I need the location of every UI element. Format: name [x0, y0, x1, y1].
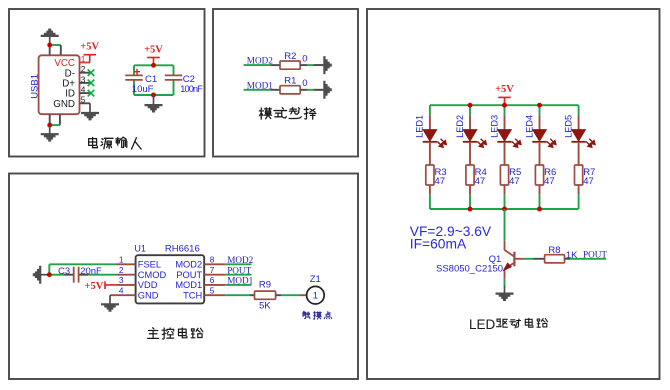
- svg-text:3: 3: [81, 74, 86, 84]
- wire: [49, 45, 51, 55]
- Z1 pin: [300, 294, 307, 296]
- wire: [578, 105, 580, 115]
- +5V flag (VDD): [84, 281, 115, 292]
- wire: [504, 105, 506, 115]
- svg-text:5: 5: [210, 285, 215, 295]
- wire: [134, 94, 174, 96]
- wire: [539, 105, 541, 115]
- svg-text:47: 47: [509, 176, 520, 187]
- resistor R9: [255, 291, 276, 299]
- resistor R2: [280, 61, 300, 69]
- wire: [110, 294, 116, 296]
- LED2 anode pin: [469, 115, 471, 130]
- svg-text:LED5: LED5: [563, 115, 573, 138]
- resistor R9 left pin: [250, 294, 255, 296]
- svg-text:POUT: POUT: [176, 270, 202, 280]
- svg-text:POUT: POUT: [583, 249, 607, 259]
- touch pad Z1 circle: [307, 286, 325, 304]
- wire: [133, 65, 135, 75]
- junction (LED rail top): [502, 103, 507, 108]
- wire: [314, 89, 324, 91]
- svg-text:1: 1: [119, 255, 124, 265]
- svg-text:47: 47: [475, 176, 486, 187]
- svg-text:8: 8: [210, 255, 215, 265]
- wire: [430, 104, 579, 106]
- USB1 pin 4 stub: [80, 92, 91, 94]
- svg-text:R2: R2: [284, 51, 296, 62]
- title: mode select (mo shi xuan ze): [259, 108, 271, 119]
- resistor R3: [426, 165, 434, 185]
- svg-text:VDD: VDD: [138, 280, 158, 290]
- svg-text:TCH: TCH: [183, 291, 202, 301]
- wire: [59, 114, 61, 125]
- wire: [504, 195, 506, 209]
- svg-text:1: 1: [313, 291, 318, 302]
- svg-text:LED2: LED2: [455, 115, 465, 138]
- resistor R2 left pin: [270, 64, 280, 66]
- U1 pin 7 stub: [204, 274, 225, 276]
- U1 pin 5 stub: [204, 294, 225, 296]
- U1 pin 8 stub: [204, 263, 225, 265]
- svg-text:0: 0: [302, 54, 307, 65]
- LED5 anode pin: [578, 115, 580, 130]
- wire: [570, 258, 606, 260]
- +5V flag (USB): [80, 42, 99, 63]
- capacitor C3 plates: [73, 267, 75, 283]
- +5V flag (capacitors): [144, 44, 163, 65]
- svg-text:LED1: LED1: [415, 115, 425, 138]
- svg-text:SS8050_C2150: SS8050_C2150: [436, 263, 503, 274]
- svg-text:47: 47: [583, 176, 594, 187]
- R4 bottom pin: [469, 185, 471, 195]
- svg-text:POUT: POUT: [227, 266, 251, 276]
- C1 polarity +: [134, 71, 140, 73]
- svg-text:GND: GND: [138, 291, 159, 301]
- LED D4 (LED4): [532, 130, 556, 148]
- resistor R8 right pin: [565, 258, 571, 260]
- wire: [307, 89, 314, 91]
- svg-text:47: 47: [435, 176, 446, 187]
- no-connect flag pin 4: [88, 90, 95, 97]
- svg-text:R1: R1: [284, 76, 296, 87]
- junction (LED rail bottom): [537, 207, 542, 212]
- USB1 pin 2 stub: [80, 72, 91, 74]
- resistor R9 right pin: [276, 294, 281, 296]
- transistor Q1: [504, 241, 525, 279]
- section box: mode select: [213, 9, 358, 157]
- IC U1 body: [136, 255, 205, 303]
- junction (LED rail top): [537, 103, 542, 108]
- svg-text:+5V: +5V: [80, 42, 99, 53]
- wire: [430, 208, 579, 210]
- svg-text:GND: GND: [53, 99, 75, 110]
- wire: [469, 195, 471, 209]
- ground (capacitors): [145, 95, 163, 113]
- wire: [429, 195, 431, 209]
- junction (USB shield top): [47, 43, 52, 48]
- wire: [469, 105, 471, 115]
- ground (R2): [315, 56, 332, 74]
- wire: [89, 274, 116, 276]
- svg-text:7: 7: [210, 265, 215, 275]
- junction (USB shield bottom): [47, 123, 52, 128]
- ground (top of USB1): [41, 29, 59, 46]
- no-connect flag pin 2: [88, 69, 95, 76]
- junction (LED rail bottom): [502, 207, 507, 212]
- ground (U1 GND): [101, 295, 119, 312]
- wire: [429, 105, 431, 115]
- wire: [539, 195, 541, 209]
- svg-text:MOD2: MOD2: [175, 260, 202, 270]
- junction (C3 / arrow): [47, 272, 52, 277]
- wire: [173, 80, 175, 95]
- capacitor C1 plates: [125, 74, 142, 76]
- svg-text:+5V: +5V: [144, 44, 163, 55]
- svg-text:+5V: +5V: [84, 281, 103, 292]
- wire: [50, 124, 60, 126]
- capacitor C3 left pin: [64, 274, 73, 276]
- junction (LED rail bottom): [468, 207, 473, 212]
- svg-text:10uF: 10uF: [132, 84, 154, 95]
- svg-text:LED: LED: [469, 317, 496, 332]
- svg-text:2: 2: [119, 265, 124, 275]
- no-connect flag pin 3: [88, 80, 95, 87]
- resistor R5: [500, 165, 508, 185]
- wire: [225, 263, 251, 265]
- wire: [244, 64, 271, 66]
- junction (cap bottom): [151, 93, 156, 98]
- resistor R1 right pin: [300, 89, 307, 91]
- LED1 anode pin: [429, 115, 431, 130]
- ground (R1): [315, 81, 332, 99]
- svg-text:0: 0: [302, 78, 307, 89]
- wire: [225, 294, 250, 296]
- resistor R7: [575, 165, 583, 185]
- svg-text:MOD1: MOD1: [227, 276, 253, 286]
- capacitor C2 plates: [165, 74, 182, 76]
- ground (FSEL/CMOD filter): [33, 266, 50, 284]
- U1 pin 1 stub: [116, 263, 136, 265]
- LED D3 (LED3): [497, 130, 521, 148]
- USB1 pin 1 stub: [80, 62, 91, 64]
- wire: [578, 195, 580, 209]
- wire: [49, 274, 63, 276]
- wire: [524, 258, 533, 260]
- svg-text:+5V: +5V: [495, 84, 514, 95]
- wire: [50, 44, 61, 46]
- svg-text:4: 4: [119, 285, 124, 295]
- ground (below USB1): [41, 125, 59, 142]
- resistor R1: [280, 86, 300, 94]
- svg-text:CMOD: CMOD: [138, 270, 167, 280]
- svg-text:47: 47: [544, 176, 555, 187]
- LED5 cathode pin: [578, 142, 580, 165]
- svg-text:USB1: USB1: [30, 74, 41, 99]
- svg-text:RH6616: RH6616: [165, 244, 200, 255]
- svg-text:4: 4: [81, 85, 86, 95]
- svg-text:5K: 5K: [259, 301, 271, 312]
- svg-text:R9: R9: [259, 279, 271, 290]
- svg-text:100nF: 100nF: [180, 84, 203, 94]
- LED3 cathode pin: [504, 142, 506, 165]
- label: touch point (chu mo dian): [303, 312, 310, 319]
- LED4 cathode pin: [539, 142, 541, 165]
- section box: LED driver: [367, 9, 660, 379]
- USB1 pin 3 stub: [80, 82, 91, 84]
- svg-text:U1: U1: [134, 244, 146, 254]
- LED3 anode pin: [504, 115, 506, 130]
- +5V flag (LED rail): [495, 84, 514, 105]
- resistor R2 right pin: [300, 64, 307, 66]
- wire: [133, 80, 135, 95]
- LED1 cathode pin: [429, 142, 431, 165]
- svg-text:MOD1: MOD1: [175, 280, 202, 290]
- wire: [225, 274, 251, 276]
- wire: [48, 264, 50, 274]
- wire: [281, 294, 300, 296]
- svg-text:FSEL: FSEL: [138, 260, 161, 270]
- svg-text:3: 3: [119, 275, 124, 285]
- USB1 pin 5 stub: [80, 102, 91, 104]
- LED2 cathode pin: [469, 142, 471, 165]
- resistor R8 left pin: [533, 258, 544, 260]
- wire: [307, 64, 314, 66]
- wire: [244, 89, 271, 91]
- ground (USB pin 5): [81, 103, 99, 120]
- title: power input (dian yuan shu ru): [89, 137, 98, 147]
- svg-text:2: 2: [81, 64, 86, 74]
- wire: [173, 65, 175, 75]
- U1 pin 3 stub: [116, 284, 136, 286]
- U1 pin 6 stub: [204, 284, 225, 286]
- resistor R6: [535, 165, 543, 185]
- capacitor C3 right pin: [79, 274, 88, 276]
- wire: [134, 64, 174, 66]
- svg-text:20nF: 20nF: [80, 266, 102, 277]
- section box: power input: [9, 9, 205, 157]
- R3 bottom pin: [429, 185, 431, 195]
- resistor R1 left pin: [270, 89, 280, 91]
- section box: main control: [9, 174, 358, 380]
- resistor R8: [545, 255, 565, 263]
- wire: [49, 263, 115, 265]
- svg-text:LED3: LED3: [489, 115, 499, 138]
- svg-text:LED4: LED4: [524, 115, 534, 138]
- ground (Q1 emitter): [496, 286, 514, 302]
- svg-text:5: 5: [81, 95, 86, 105]
- svg-text:R8: R8: [548, 245, 560, 256]
- USB connector USB1 body: [39, 55, 80, 114]
- junction (cap top): [151, 63, 156, 68]
- R5 bottom pin: [504, 185, 506, 195]
- LED D2 (LED2): [463, 130, 487, 148]
- R6 bottom pin: [539, 185, 541, 195]
- wire: [504, 209, 506, 241]
- wire: [225, 284, 251, 286]
- wire: [60, 45, 62, 55]
- resistor R4: [466, 165, 474, 185]
- U1 pin 4 stub: [116, 294, 136, 296]
- svg-text:Z1: Z1: [310, 274, 321, 285]
- svg-text:IF=60mA: IF=60mA: [410, 237, 467, 252]
- svg-text:C3: C3: [58, 266, 70, 277]
- svg-text:6: 6: [210, 275, 215, 285]
- svg-text:MOD2: MOD2: [227, 255, 253, 265]
- title: main control (zhu kong dian lu): [148, 328, 159, 339]
- wire: [314, 64, 324, 66]
- title: LED driver (qu dong dian lu): [497, 319, 508, 327]
- wire: [49, 114, 51, 125]
- wire: [504, 279, 506, 285]
- R7 bottom pin: [578, 185, 580, 195]
- LED4 anode pin: [539, 115, 541, 130]
- LED D1 (LED1): [423, 130, 447, 148]
- U1 pin 2 stub: [116, 274, 136, 276]
- junction (LED rail top): [468, 103, 473, 108]
- LED D5 (LED5): [571, 130, 595, 148]
